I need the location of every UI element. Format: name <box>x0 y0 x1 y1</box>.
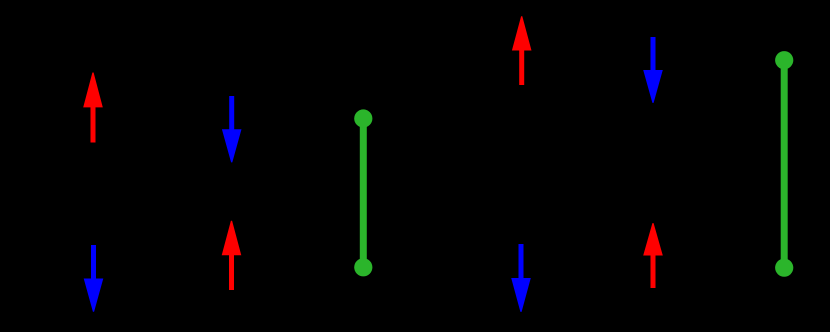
spin-up arrow 3 (red, right pair 1 top) <box>512 16 532 85</box>
spin-up arrow 2 (red, left pair 2 bottom) <box>222 221 242 290</box>
bond segment 1 (green, left) <box>354 109 372 276</box>
spin-down arrow 4 (blue, right pair 2 top) <box>643 37 663 103</box>
spin-down arrow 3 (blue, right pair 1 bottom) <box>511 244 531 312</box>
spin-down arrow 1 (blue, left pair 1 bottom) <box>84 245 104 312</box>
spin-down arrow 2 (blue, left pair 2 top) <box>222 96 242 162</box>
spin-up arrow 1 (red, left pair 1 top) <box>83 73 103 143</box>
spin-up arrow 4 (red, right pair 2 bottom) <box>643 223 663 288</box>
bond segment 2 (green, right) <box>775 51 793 277</box>
